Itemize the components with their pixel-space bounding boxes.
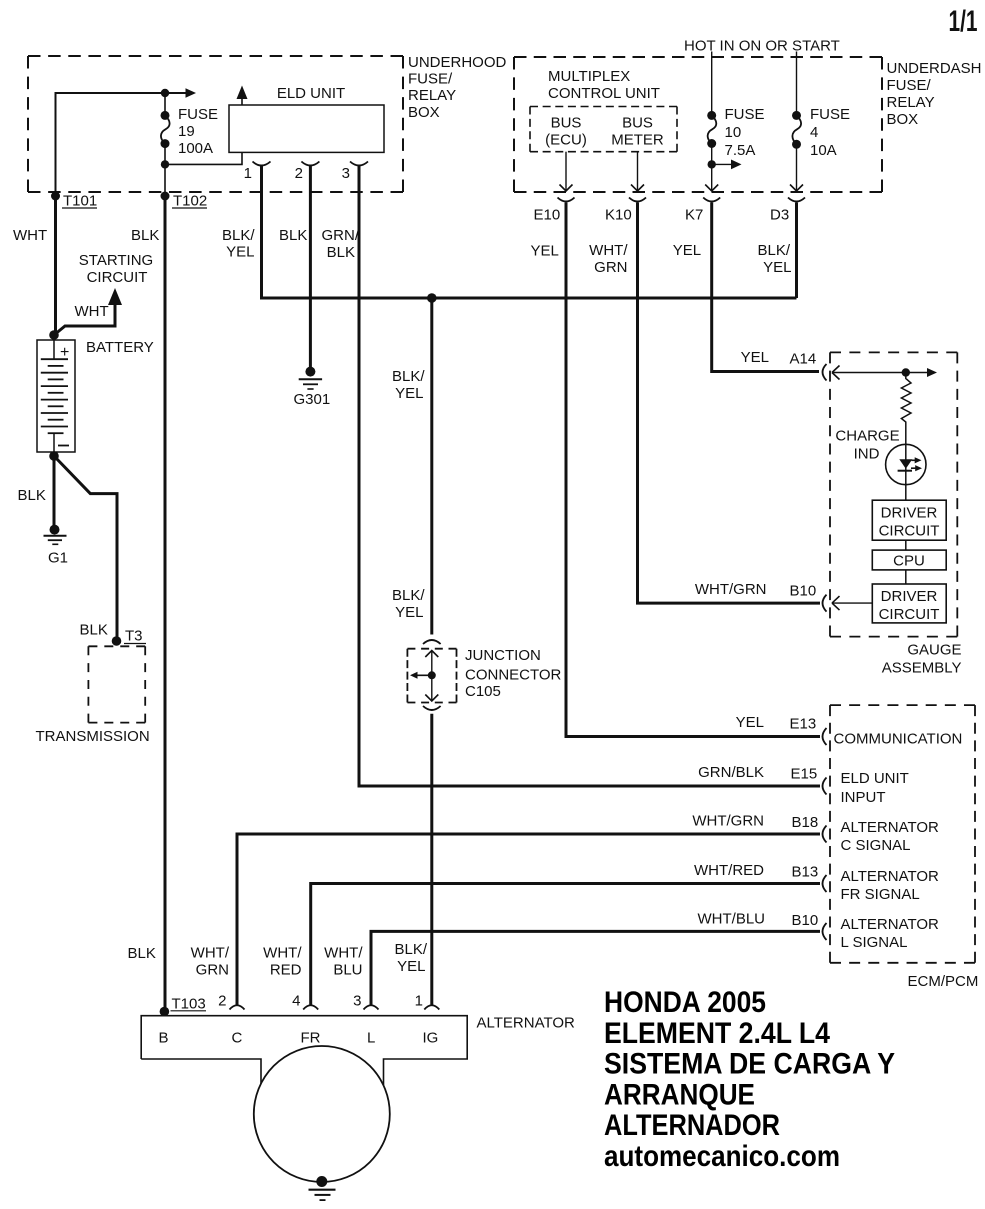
label HOT IN ON OR START — [684, 38, 840, 55]
wire: hot feed to fuse 4 — [796, 52, 798, 116]
label COMMUNICATION — [834, 731, 963, 748]
wire BLK/YEL D3 down — [795, 203, 798, 299]
page number 1/1 — [949, 5, 978, 38]
label BUS (ECU) — [545, 115, 587, 149]
svg-text:D3: D3 — [770, 207, 789, 224]
svg-text:GRN: GRN — [594, 259, 627, 276]
svg-text:2: 2 — [295, 165, 303, 182]
connector arc B10 — [823, 923, 827, 940]
label ALTERNATOR (box) — [477, 1015, 576, 1032]
terminal label B — [159, 1030, 169, 1047]
svg-text:YEL: YEL — [397, 958, 425, 975]
svg-text:ALTERNATOR: ALTERNATOR — [841, 916, 940, 933]
junction connector C105 entry arc — [423, 640, 441, 644]
svg-text:WHT/RED: WHT/RED — [694, 862, 764, 879]
svg-text:FR SIGNAL: FR SIGNAL — [841, 886, 920, 903]
label YEL (A14) — [741, 349, 769, 366]
svg-text:ELEMENT 2.4L L4: ELEMENT 2.4L L4 — [604, 1017, 830, 1050]
svg-text:CONNECTOR: CONNECTOR — [465, 667, 562, 684]
svg-text:BLK: BLK — [18, 487, 46, 504]
wire WHT/RED B13 to alternator FR — [311, 884, 820, 1005]
label YEL (E10) — [531, 243, 559, 260]
label CHARGE IND — [835, 428, 899, 463]
svg-text:ASSEMBLY: ASSEMBLY — [882, 660, 962, 677]
ecm/pcm box (dashed) — [830, 705, 975, 963]
label MULTIPLEX CONTROL UNIT — [548, 68, 660, 102]
node T102 — [161, 192, 170, 201]
svg-text:K7: K7 — [685, 207, 703, 224]
resistor (charge ind) — [901, 373, 911, 425]
svg-text:GRN: GRN — [196, 962, 229, 979]
svg-text:C105: C105 — [465, 683, 501, 700]
svg-text:1: 1 — [244, 165, 252, 182]
svg-text:T101: T101 — [63, 193, 97, 210]
alternator pin arc IG — [424, 1005, 439, 1009]
svg-text:A14: A14 — [790, 351, 817, 368]
svg-text:YEL: YEL — [395, 604, 423, 621]
svg-text:YEL: YEL — [673, 242, 701, 259]
svg-text:T3: T3 — [125, 628, 143, 645]
alternator pin arc FR — [303, 1005, 318, 1009]
wire BLK/YEL C105 to alternator IG — [430, 714, 433, 1005]
svg-text:CIRCUIT: CIRCUIT — [879, 523, 940, 540]
terminal label C — [232, 1030, 243, 1047]
ground at alternator — [309, 1176, 336, 1200]
ELD pin 1 connector arc — [253, 162, 271, 166]
svg-text:YEL: YEL — [763, 259, 791, 276]
node T101 — [51, 192, 60, 201]
svg-text:BUS: BUS — [622, 115, 653, 132]
svg-text:YEL: YEL — [741, 349, 769, 366]
label B18 — [792, 814, 819, 831]
label E13 — [790, 716, 817, 733]
label T103 — [171, 996, 207, 1013]
label BLK (G1) — [18, 487, 46, 504]
svg-text:ALTERNATOR: ALTERNATOR — [477, 1015, 576, 1032]
ground G301 — [294, 367, 331, 408]
svg-text:B10: B10 — [792, 912, 819, 929]
svg-text:WHT/: WHT/ — [589, 242, 628, 259]
svg-text:K10: K10 — [605, 207, 632, 224]
svg-text:MULTIPLEX: MULTIPLEX — [548, 68, 630, 85]
svg-text:BUS: BUS — [551, 115, 582, 132]
svg-text:E13: E13 — [790, 716, 817, 733]
label WHT/ GRN (K10) — [589, 242, 628, 276]
svg-text:G1: G1 — [48, 550, 68, 567]
svg-text:BLK/: BLK/ — [757, 242, 790, 259]
label T102 — [172, 193, 207, 210]
svg-text:GRN/BLK: GRN/BLK — [698, 764, 764, 781]
svg-text:FR: FR — [301, 1030, 321, 1047]
svg-text:CIRCUIT: CIRCUIT — [879, 606, 940, 623]
label K10 — [605, 207, 632, 224]
label FUSE 10 7.5A — [725, 106, 765, 159]
pin number 1 — [415, 993, 423, 1010]
label WHT/RED (B13) — [694, 862, 764, 879]
pin number 2 — [218, 993, 226, 1010]
svg-text:BLK/: BLK/ — [222, 227, 255, 244]
terminal label L — [367, 1030, 375, 1047]
svg-text:BLK/: BLK/ — [392, 587, 425, 604]
alternator pin arc C — [230, 1005, 245, 1009]
fuse F4 — [792, 111, 801, 149]
label A14 — [790, 351, 817, 368]
label BLK (T3) — [80, 622, 108, 639]
label K7 — [685, 207, 703, 224]
driver circuit box 2 — [872, 584, 946, 623]
svg-text:automecanico.com: automecanico.com — [604, 1140, 840, 1173]
wire WHT/GRN K10 down and to gauge B10 — [638, 203, 821, 604]
connector arc K7 — [703, 198, 720, 202]
svg-text:IG: IG — [423, 1030, 439, 1047]
driver circuit box 1 — [872, 500, 946, 540]
svg-text:BLK: BLK — [131, 227, 159, 244]
wire: ELD pin 1 BLK/YEL down — [260, 166, 263, 300]
svg-text:COMMUNICATION: COMMUNICATION — [834, 731, 963, 748]
ELD unit box U-ELD — [229, 105, 384, 152]
svg-text:WHT/: WHT/ — [263, 945, 302, 962]
wire WHT/BLU B10 to alternator L — [371, 931, 820, 1004]
svg-text:FUSE/: FUSE/ — [887, 77, 932, 94]
svg-text:CIRCUIT: CIRCUIT — [87, 269, 148, 286]
svg-text:WHT/GRN: WHT/GRN — [692, 813, 764, 830]
wire CPU to driver circuit 2 — [905, 570, 907, 584]
label B10 — [792, 912, 819, 929]
svg-text:DRIVER: DRIVER — [881, 505, 938, 522]
label FUSE 19 100A — [178, 106, 218, 157]
wire YEL E10 down and to E13 — [566, 203, 820, 737]
svg-text:(ECU): (ECU) — [545, 132, 587, 149]
ground G1 — [44, 525, 69, 567]
svg-text:WHT/GRN: WHT/GRN — [695, 581, 767, 598]
label GRN/ BLK (pin3) — [322, 227, 360, 261]
node gauge A14 branch — [902, 368, 910, 376]
svg-text:10A: 10A — [810, 142, 837, 159]
svg-text:BOX: BOX — [887, 111, 919, 128]
svg-text:ALTERNATOR: ALTERNATOR — [841, 819, 940, 836]
svg-text:B18: B18 — [792, 814, 819, 831]
pin number 2 — [295, 165, 303, 182]
svg-text:SISTEMA DE CARGA Y: SISTEMA DE CARGA Y — [604, 1048, 895, 1081]
svg-text:WHT: WHT — [13, 227, 47, 244]
label WHT/BLU (B10) — [698, 911, 766, 928]
arrow: BUS ECU to E10 — [560, 152, 573, 191]
label BLK/ YEL (above C105) — [392, 587, 425, 621]
node BLK/YEL junction — [427, 293, 437, 303]
svg-text:2: 2 — [218, 993, 226, 1010]
label JUNCTION CONNECTOR C105 — [465, 647, 562, 700]
svg-text:B: B — [159, 1030, 169, 1047]
label BLK (pin2) — [279, 227, 307, 244]
label ECM/PCM — [908, 973, 979, 990]
svg-text:WHT: WHT — [75, 303, 109, 320]
connector arc E13 — [823, 728, 827, 745]
svg-text:BLK: BLK — [128, 945, 156, 962]
svg-text:ECM/PCM: ECM/PCM — [908, 973, 979, 990]
label ELD UNIT — [277, 85, 345, 102]
connector arc D3 — [788, 198, 805, 202]
underdash fuse/relay box (dashed) — [514, 57, 882, 192]
terminal label IG — [423, 1030, 439, 1047]
pin number 3 — [353, 993, 361, 1010]
label UNDERHOOD FUSE/ RELAY BOX — [408, 54, 507, 121]
arrow A14 into gauge — [832, 366, 937, 380]
label BUS METER — [611, 115, 664, 149]
label STARTING CIRCUIT — [79, 252, 153, 286]
label UNDERDASH FUSE/ RELAY BOX — [887, 60, 982, 128]
svg-text:BATTERY: BATTERY — [86, 339, 154, 356]
node T103 — [160, 1007, 170, 1017]
connector arc E15 — [823, 778, 827, 795]
svg-text:UNDERHOOD: UNDERHOOD — [408, 54, 507, 71]
svg-text:YEL: YEL — [531, 243, 559, 260]
ELD pin 3 connector arc — [350, 162, 368, 166]
label BLK/ YEL (upper) — [392, 368, 425, 402]
wire: T101 feed inside underhood box — [56, 88, 197, 192]
wire LED to driver circuit 1 — [905, 483, 907, 500]
svg-text:BLK/: BLK/ — [392, 368, 425, 385]
transmission box (dashed) — [88, 646, 145, 722]
svg-text:GAUGE: GAUGE — [907, 642, 961, 659]
label WHT/ RED (alt FR) — [263, 945, 302, 979]
label BATTERY — [86, 339, 154, 356]
C105 internal arrows — [410, 651, 438, 702]
svg-text:1: 1 — [415, 993, 423, 1010]
svg-text:RELAY: RELAY — [887, 94, 935, 111]
svg-text:YEL: YEL — [395, 385, 423, 402]
svg-text:GRN/: GRN/ — [322, 227, 360, 244]
alternator pin arc L — [364, 1005, 379, 1009]
wire WHT/GRN B18 to alternator C — [237, 834, 820, 1005]
svg-text:UNDERDASH: UNDERDASH — [887, 60, 982, 77]
connector arc B18 — [823, 826, 827, 843]
label WHT (starting) — [75, 303, 109, 320]
label BLK — [131, 227, 159, 244]
svg-text:7.5A: 7.5A — [725, 142, 756, 159]
wire WHT T101 to battery — [54, 196, 57, 335]
svg-text:DRIVER: DRIVER — [881, 588, 938, 605]
label YEL (K7) — [673, 242, 701, 259]
svg-text:B10: B10 — [790, 583, 817, 600]
svg-text:IND: IND — [854, 446, 880, 463]
svg-text:CPU: CPU — [893, 553, 925, 570]
wire BLK battery to G1 — [53, 456, 56, 526]
arrow: BUS METER to K10 — [631, 152, 644, 191]
label WHT/GRN (B18) — [692, 813, 764, 830]
wire BLK battery to T3 — [54, 456, 117, 643]
label WHT/GRN (B10 gauge) — [695, 581, 767, 598]
multiplex inner box (dashed) — [530, 107, 677, 152]
gauge assembly box (dashed) — [830, 352, 957, 636]
svg-text:WHT/BLU: WHT/BLU — [698, 911, 766, 928]
svg-text:C: C — [232, 1030, 243, 1047]
label WHT — [13, 227, 47, 244]
connector arc B10 gauge — [823, 595, 827, 612]
label BLK/ YEL (D3) — [757, 242, 791, 276]
svg-text:C SIGNAL: C SIGNAL — [841, 837, 911, 854]
label ELD UNIT INPUT — [841, 770, 909, 806]
terminal label FR — [301, 1030, 321, 1047]
node battery positive — [49, 330, 59, 340]
svg-text:RED: RED — [270, 962, 302, 979]
label BLK (T103) — [128, 945, 156, 962]
title text block — [604, 986, 895, 1173]
svg-text:BLK: BLK — [80, 622, 108, 639]
svg-text:E15: E15 — [791, 766, 818, 783]
svg-text:ALTERNADOR: ALTERNADOR — [604, 1109, 780, 1142]
pin number 4 — [292, 993, 300, 1010]
svg-text:G301: G301 — [294, 391, 331, 408]
node: branch to ELD feed — [161, 160, 169, 168]
svg-text:RELAY: RELAY — [408, 87, 456, 104]
svg-text:100A: 100A — [178, 140, 213, 157]
node T3 — [112, 636, 122, 646]
alternator housing box — [141, 1016, 467, 1094]
svg-text:INPUT: INPUT — [841, 789, 886, 806]
label FUSE 4 10A — [810, 106, 850, 159]
svg-text:ELD UNIT: ELD UNIT — [841, 770, 909, 787]
connector arc B13 — [823, 875, 827, 892]
svg-text:4: 4 — [810, 124, 818, 141]
label TRANSMISSION — [36, 728, 150, 745]
svg-text:E10: E10 — [534, 207, 561, 224]
label WHT/ BLU (alt L) — [324, 945, 363, 979]
label GRN/BLK (E15) — [698, 764, 764, 781]
wire GRN/BLK pin3 to E15 — [359, 785, 820, 788]
arrow B10 into gauge driver 2 — [832, 596, 872, 610]
svg-text:3: 3 — [342, 165, 350, 182]
svg-text:STARTING: STARTING — [79, 252, 153, 269]
svg-text:L SIGNAL: L SIGNAL — [841, 934, 908, 951]
svg-text:4: 4 — [292, 993, 300, 1010]
svg-text:BLK/: BLK/ — [394, 941, 427, 958]
wire: ELD pin 3 GRN/BLK down — [358, 166, 361, 788]
svg-text:BOX: BOX — [408, 104, 440, 121]
pin number 1 — [244, 165, 252, 182]
wire: ELD pin 2 BLK down to G301 — [309, 166, 312, 368]
wire: branch to ELD arrow — [165, 86, 248, 165]
svg-text:T103: T103 — [172, 996, 206, 1013]
svg-text:1/1: 1/1 — [949, 5, 978, 38]
svg-text:T102: T102 — [173, 193, 207, 210]
alternator circle — [254, 1046, 390, 1182]
svg-text:TRANSMISSION: TRANSMISSION — [36, 728, 150, 745]
wire: fuse 10 down — [711, 144, 713, 192]
svg-text:FUSE: FUSE — [810, 106, 850, 123]
label BLK/ YEL (pin1) — [222, 227, 255, 261]
underhood fuse/relay box (dashed) — [28, 56, 403, 192]
svg-text:WHT/: WHT/ — [191, 945, 230, 962]
charge indicator LED — [886, 424, 926, 485]
svg-text:YEL: YEL — [226, 244, 254, 261]
pin number 3 — [342, 165, 350, 182]
svg-text:YEL: YEL — [736, 714, 764, 731]
svg-text:JUNCTION: JUNCTION — [465, 647, 541, 664]
label GAUGE ASSEMBLY — [882, 642, 962, 677]
svg-text:HONDA 2005: HONDA 2005 — [604, 986, 766, 1019]
junction connector C105 box (dashed) — [407, 649, 456, 703]
arrow: fuse 4 to D3 — [790, 144, 803, 191]
svg-text:BLK: BLK — [327, 244, 355, 261]
label D3 — [770, 207, 789, 224]
wire: hot feed to fuse 10 — [711, 52, 713, 116]
wire: junction to fuse 19 — [164, 93, 166, 115]
svg-text:FUSE: FUSE — [178, 106, 218, 123]
connector arc A14 — [823, 364, 827, 381]
node: fuse 19 top junction — [161, 89, 169, 97]
svg-text:ARRANQUE: ARRANQUE — [604, 1078, 755, 1111]
svg-text:BLU: BLU — [333, 962, 362, 979]
svg-text:METER: METER — [611, 132, 664, 149]
label T3 — [124, 628, 146, 645]
node battery negative — [49, 451, 59, 461]
svg-text:ELD UNIT: ELD UNIT — [277, 85, 345, 102]
wire BLK/YEL horizontal bus — [260, 297, 797, 300]
svg-text:ALTERNATOR: ALTERNATOR — [841, 868, 940, 885]
node: fuse 10 branch — [708, 160, 742, 170]
connector arc E10 — [558, 198, 575, 202]
svg-text:FUSE: FUSE — [725, 106, 765, 123]
connector arc K10 — [629, 198, 646, 202]
label YEL (E13) — [736, 714, 764, 731]
svg-text:WHT/: WHT/ — [324, 945, 363, 962]
label BLK/ YEL (alt IG) — [394, 941, 427, 975]
arrow: fuse 10 to K7 — [705, 185, 718, 192]
label E10 — [534, 207, 561, 224]
wire BLK/YEL down to C105 — [430, 298, 433, 635]
wire YEL K7 down and to A14 — [712, 203, 819, 372]
svg-text:FUSE/: FUSE/ — [408, 71, 453, 88]
label T101 — [62, 193, 97, 210]
wire WHT branch to starting circuit — [54, 288, 122, 335]
fuse F19 — [161, 111, 170, 148]
svg-text:L: L — [367, 1030, 375, 1047]
wire BLK T102 to T103 — [164, 196, 167, 1012]
fuse F10 — [707, 111, 716, 148]
label B13 — [792, 864, 819, 881]
label B10 (gauge) — [790, 583, 817, 600]
svg-text:B13: B13 — [792, 864, 819, 881]
svg-text:10: 10 — [725, 124, 742, 141]
CPU box — [872, 550, 946, 570]
svg-text:CONTROL UNIT: CONTROL UNIT — [548, 85, 660, 102]
label ALTERNATOR L SIGNAL — [841, 916, 940, 951]
label ALTERNATOR C SIGNAL — [841, 819, 940, 854]
svg-text:HOT IN ON OR START: HOT IN ON OR START — [684, 38, 840, 55]
wire: fuse 19 to T102 — [164, 144, 166, 196]
svg-text:CHARGE: CHARGE — [835, 428, 899, 445]
wire driver1 to CPU — [905, 540, 907, 550]
svg-text:BLK: BLK — [279, 227, 307, 244]
label WHT/ GRN (alt C) — [191, 945, 230, 979]
ELD pin 2 connector arc — [301, 162, 319, 166]
junction connector C105 exit arc — [423, 706, 441, 710]
label E15 — [791, 766, 818, 783]
svg-text:19: 19 — [178, 123, 195, 140]
battery symbol — [37, 340, 75, 452]
svg-text:3: 3 — [353, 993, 361, 1010]
label ALTERNATOR FR SIGNAL — [841, 868, 940, 903]
